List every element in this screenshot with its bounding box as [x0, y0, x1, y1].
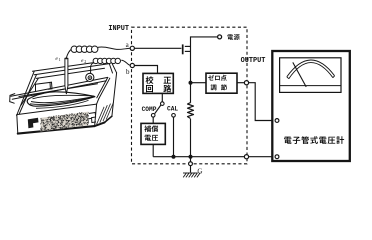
wire CAL contact to bus	[173, 117, 175, 157]
svg-text:INPUT: INPUT	[108, 25, 129, 33]
svg-text:1: 1	[59, 57, 61, 62]
wire: right end face outline	[97, 99, 99, 105]
svg-text:COMP: COMP	[142, 106, 157, 113]
voltmeter meter face	[280, 58, 341, 93]
label 調節 (adjust)	[211, 85, 217, 91]
wire: front face outline	[17, 104, 97, 115]
junction dot CAL/bus	[172, 155, 176, 159]
label 電源 (power)	[227, 34, 233, 40]
label 電圧 (voltage)	[145, 135, 151, 141]
electrode e1 rod	[65, 58, 68, 94]
jack plug bar	[182, 44, 184, 54]
wedge stylus arm inside tray	[27, 92, 95, 109]
terminal bus at dashed border	[244, 155, 248, 159]
wire: tray opening inner front edges	[11, 77, 108, 96]
resistor R (zigzag)	[188, 103, 194, 119]
label 補償 (compensation)	[144, 125, 151, 132]
wedge shadow line	[36, 100, 89, 108]
jack fork prongs	[185, 45, 191, 47]
clip mark on front face (right)	[89, 113, 96, 123]
bottom bus wire	[153, 156, 244, 158]
clip mark on front face (left)	[28, 118, 39, 128]
wire: inner right wall edges	[97, 77, 108, 97]
instrument: electrode tray (left sketch)	[10, 60, 117, 133]
terminal a	[130, 46, 134, 50]
svg-text:OUTPUT: OUTPUT	[241, 57, 266, 65]
wire zero-adjust box to OUTPUT terminal	[237, 82, 244, 84]
coiled lead wire from e2 to terminal b	[91, 58, 131, 73]
compensation voltage box 補償電圧	[141, 123, 165, 144]
meter scale baseline	[280, 85, 341, 87]
wire: tray floor front edge	[19, 84, 98, 97]
wire: tray rim right short edges	[111, 60, 117, 73]
svg-text:b: b	[126, 68, 130, 76]
wire OUTPUT terminal to voltmeter +	[249, 83, 276, 121]
electrode e2 spiral	[86, 73, 94, 81]
wire calibration box to switch pivot	[161, 94, 163, 102]
junction dot at zero-adjust tap	[189, 81, 193, 85]
ground symbol	[183, 173, 200, 178]
voltmeter terminal +	[275, 119, 279, 123]
wire to zero-adjust box	[191, 82, 206, 84]
wire: tray back rim edges	[33, 60, 111, 71]
coiled lead wire from e1 to terminal a	[66, 46, 130, 58]
switch pivot terminal	[161, 102, 165, 106]
label ゼロ点 (zero point)	[208, 75, 214, 81]
wire: tray left side edges	[17, 71, 35, 115]
wire: floor step plate	[36, 82, 53, 89]
label 校正 (calibration)	[146, 76, 154, 84]
svg-text:G: G	[197, 167, 202, 175]
wire compensation box to bus	[152, 144, 154, 156]
right end face hatching	[97, 102, 114, 124]
wire: rim front-left corner beak	[10, 94, 15, 104]
voltmeter terminal -	[275, 155, 279, 159]
terminal b	[130, 63, 134, 67]
wire COMP contact to compensation box	[152, 117, 154, 123]
terminal G at dashed border	[189, 162, 193, 166]
wire from terminal b to calibration box	[134, 66, 157, 73]
switch lever	[155, 105, 161, 114]
stippled panel on front face	[41, 112, 89, 132]
label 電子管式電圧計 (vacuum-tube voltmeter)	[284, 137, 291, 144]
terminal OUTPUT	[244, 81, 248, 85]
calibration circuit box 校正回路	[143, 73, 173, 93]
meter needle	[293, 62, 306, 87]
dashed enclosure box	[132, 27, 248, 164]
label 回路 (circuit)	[146, 85, 153, 92]
junction dot bus/ground	[189, 155, 193, 159]
zero adjust box ゼロ点調節	[206, 73, 237, 93]
terminal 電源 (power)	[218, 35, 222, 39]
meter scale arc	[287, 60, 335, 79]
switch contact COMP	[151, 114, 155, 118]
wire from terminal a to jack	[134, 47, 181, 49]
main vertical bus wire	[191, 37, 218, 103]
svg-text:CAL: CAL	[167, 106, 178, 113]
wire ground stem	[190, 166, 192, 173]
wire dashed-border to voltmeter -	[249, 156, 276, 158]
svg-text:2: 2	[84, 59, 86, 64]
voltmeter 電子管式電圧計 outer case	[272, 51, 350, 161]
switch contact CAL	[172, 114, 176, 118]
